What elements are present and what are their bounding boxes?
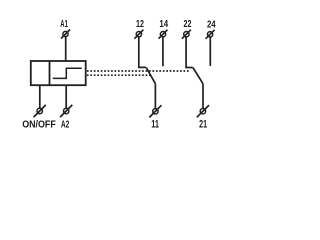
terminal 21 [197, 105, 209, 117]
relay coil K1 box [31, 61, 86, 85]
step-function symbol [53, 68, 82, 78]
svg-text:21: 21 [199, 119, 207, 131]
svg-text:24: 24 [207, 19, 216, 30]
svg-text:22: 22 [184, 19, 192, 30]
wire 22 with NC contact hook [186, 37, 193, 68]
svg-text:12: 12 [136, 19, 144, 30]
terminal 22 [182, 30, 191, 39]
contact arm pole 2 [193, 68, 203, 84]
wire 12 with NC contact hook [139, 37, 146, 67]
mechanical link dotted lower [87, 74, 151, 76]
svg-text:14: 14 [159, 19, 168, 30]
terminal 14 [159, 30, 168, 39]
svg-text:11: 11 [151, 119, 159, 131]
terminal A1 [61, 30, 70, 39]
wire arm to 21 [202, 84, 204, 109]
terminal A2 [60, 105, 72, 117]
svg-text:A1: A1 [60, 19, 68, 30]
svg-text:ON/OFF: ON/OFF [22, 119, 56, 130]
wire A1 to coil [65, 37, 67, 61]
terminal 24 [206, 30, 215, 39]
mechanical link dotted upper [87, 70, 190, 72]
wire arm to 11 [154, 84, 156, 109]
terminal 12 [134, 30, 143, 39]
wire coil to ON/OFF [39, 85, 41, 108]
terminal ON/OFF [34, 105, 46, 117]
wire coil to A2 [65, 85, 67, 108]
wire 14 NO contact [162, 37, 164, 66]
svg-text:A2: A2 [61, 118, 70, 130]
wire 24 NO contact [209, 37, 211, 66]
contact arm pole 1 [146, 67, 155, 83]
coil divider [49, 61, 51, 85]
terminal 11 [149, 105, 161, 117]
